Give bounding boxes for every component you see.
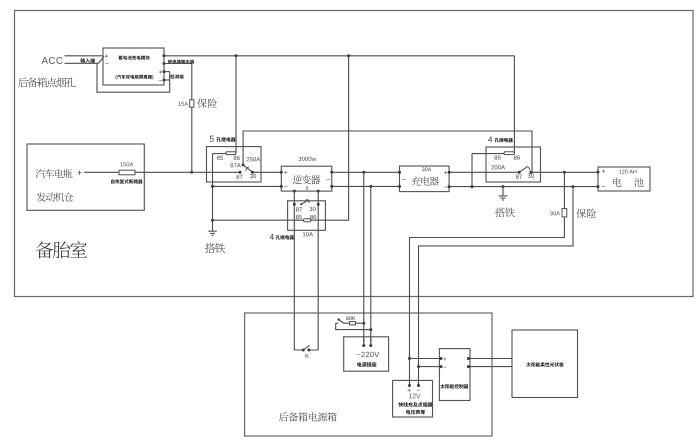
wire 80K to AC live <box>356 322 364 324</box>
junction bus1 fuse30 tap <box>563 171 566 174</box>
inverter term ac1 <box>330 171 333 174</box>
label 搭铁 2 <box>495 208 515 218</box>
relay K3 box 4孔继电器 <box>288 201 326 231</box>
label 保险 lower <box>576 209 596 218</box>
ground symbol 1 <box>208 231 217 235</box>
label 电源插座 <box>357 362 376 367</box>
junction bus2 down tap <box>572 185 575 188</box>
junction bus2 ground2 <box>502 185 505 188</box>
junction K1 pin30 <box>251 171 254 174</box>
label charger - left <box>402 178 405 180</box>
ground symbol 2 <box>499 196 508 200</box>
solar ctrl term -in <box>440 365 447 368</box>
inverter box 逆变器 <box>281 166 332 191</box>
label 12V <box>409 394 420 399</box>
fuse F1 15A body <box>190 100 194 107</box>
label 150A <box>120 162 133 166</box>
label K1 pin85 <box>217 156 223 160</box>
relay K1 box 5孔继电器 <box>207 147 262 182</box>
charger term in2 <box>398 185 401 188</box>
label 备胎室 <box>36 241 87 258</box>
wire bus1 inverter to charger <box>332 171 400 173</box>
solar ctrl term -out <box>467 365 470 368</box>
wire ACC lower <box>65 62 99 64</box>
label 后备箱电源箱 <box>279 412 337 421</box>
junction K1 gnd bus2 <box>211 185 214 188</box>
label charger 30A <box>422 167 431 171</box>
label 充电器 <box>411 176 439 185</box>
wire 87A to K2-30 <box>243 131 532 172</box>
label 太阳能柔性光伏板 <box>526 362 563 366</box>
junction bus1 AC tap <box>362 171 365 174</box>
wire bus1 fuse to relay87 <box>135 171 240 173</box>
ground wire 2 <box>502 187 504 196</box>
label 80K <box>346 316 355 320</box>
switch ACC input slash <box>99 56 105 63</box>
inverter term - in <box>280 185 288 188</box>
label 汽车电瓶 <box>36 169 73 178</box>
wire stub detect+ <box>164 71 170 73</box>
relay K2 coil <box>504 152 514 155</box>
label 发动机仓 <box>37 192 74 201</box>
junction 80K right <box>362 322 365 325</box>
label K3 pin85 <box>296 215 302 219</box>
label K3 pin86 <box>310 215 316 219</box>
relay K1 coil <box>226 152 236 155</box>
label K2 pin86 <box>514 155 520 159</box>
label 4孔继电器 upper <box>488 137 513 143</box>
charger term in1 <box>398 171 401 174</box>
relay K2 box 4孔继电器 <box>486 147 541 182</box>
module pin + input <box>105 55 108 58</box>
solar ctrl term +in <box>440 357 447 360</box>
switch 80K lever <box>339 320 344 324</box>
fuse F2 150A body <box>119 170 135 175</box>
relay K3 coil <box>303 219 310 222</box>
relay K3 switch lever <box>300 200 309 206</box>
label 检测端 <box>170 74 183 78</box>
aux battery box 电池 <box>598 167 650 191</box>
switch 80K contact dot <box>338 318 340 320</box>
junction top bus B <box>347 54 350 57</box>
wire module out2 to fuse <box>164 64 192 100</box>
wire socket lead1 <box>363 337 365 346</box>
label 电压表等 <box>406 410 425 415</box>
accessory box 12V <box>393 380 433 417</box>
wire 80K mid segment <box>344 322 350 324</box>
solar panel box 太阳能柔性光伏板 <box>512 330 578 398</box>
label 继电器输出端 <box>168 60 194 64</box>
wire bus1 relay30 to inverter+ <box>252 171 281 173</box>
junction K3 pin30 <box>317 203 320 206</box>
label K3 10A <box>303 232 313 236</box>
wire ACC upper <box>65 55 104 57</box>
label 输入端 <box>80 58 94 63</box>
battery term + <box>597 170 605 174</box>
label 搭铁 1 <box>205 243 225 253</box>
wire remote2 down <box>309 191 318 350</box>
wire bus1 charger to relay2-87 <box>449 171 519 173</box>
label 4孔继电器 lower <box>270 234 294 240</box>
label 15A <box>178 102 188 106</box>
label 5孔继电器 <box>210 136 236 142</box>
label K3 pin30 <box>309 207 315 211</box>
wire battery+ down <box>563 172 565 208</box>
junction K1 gnd coilbus <box>211 219 214 222</box>
car battery box 汽车电瓶/发动机仓 <box>27 144 144 210</box>
wire bus1 relay2-30 to battery <box>531 171 598 173</box>
label inverter K <box>306 186 309 189</box>
label 3000w <box>299 157 316 161</box>
wire module detect loop <box>97 63 170 92</box>
solar ctrl term +out <box>467 357 470 360</box>
junction 80K bottom <box>369 328 372 331</box>
wire K2 coil left <box>472 153 504 155</box>
wire top bus <box>164 55 514 57</box>
switch K left terminal <box>302 349 305 352</box>
switch K right terminal <box>307 349 310 352</box>
wire panel- link <box>470 366 512 368</box>
junction K3 pin87 <box>293 203 296 206</box>
wire solar- in <box>419 366 442 368</box>
junction fuse-bus1 <box>190 171 193 174</box>
junction bus2 relay2-85 <box>471 185 474 188</box>
label 后备箱点烟孔 <box>18 77 75 87</box>
spare-tire compartment outline 备胎室 <box>15 11 694 297</box>
wire K1 coil left <box>213 153 226 155</box>
wire 80K return <box>336 323 371 329</box>
label K1 250A <box>247 157 261 161</box>
relay K1 switch lever <box>243 165 252 172</box>
battery charge module box 蓄电池充电模块 <box>103 48 164 85</box>
battery term - <box>597 185 605 188</box>
charger term out+ <box>444 171 450 174</box>
switch K lever <box>304 345 310 349</box>
label switch K <box>306 354 309 358</box>
label K1 pin86 <box>234 156 240 160</box>
wire solar+ in <box>410 358 442 360</box>
wire K3 coil left <box>213 219 304 221</box>
wire trigger to 5-pin relay coil <box>235 56 237 153</box>
label (汽车双电瓶隔离器) <box>116 75 154 80</box>
label car battery + <box>77 171 81 175</box>
module terminal out2 <box>163 62 166 65</box>
label K1 pin87A <box>230 163 240 167</box>
label 逆变器 <box>293 175 321 184</box>
fuse F3 30A body <box>562 209 567 217</box>
wire fuse30 route <box>410 217 565 386</box>
solar controller box 太阳能控制器 <box>439 349 470 401</box>
inverter term + in <box>280 171 288 174</box>
label 30A <box>550 211 560 215</box>
wire battery- route <box>419 187 574 386</box>
wire remote1 down <box>294 191 303 350</box>
node ACC label <box>42 57 63 64</box>
junction K2 pin30 <box>529 171 532 174</box>
label 太阳能控制器 <box>440 384 468 388</box>
relay K2 switch lever <box>519 167 529 173</box>
wire trigger to 200A relay coil <box>513 56 515 153</box>
wire 80K top segment <box>336 322 339 324</box>
module terminal detect + <box>159 70 165 74</box>
wire stub detect- <box>164 79 170 81</box>
junction K1 87A <box>242 163 245 166</box>
wire bus2 left <box>213 185 282 187</box>
wire AC live down <box>363 172 365 345</box>
label K2 pin87 text <box>516 175 522 179</box>
label K2 pin30 text <box>528 174 534 178</box>
label K1 pin30 text <box>250 174 256 178</box>
inverter remote term 1 <box>293 190 296 193</box>
module terminal relay-out <box>163 54 166 57</box>
wire AC neutral down <box>370 186 372 345</box>
trunk power box outline 后备箱电源箱 <box>245 313 492 436</box>
label 蓄电池充电模块 <box>119 56 150 60</box>
wire battery+ to fuse <box>84 171 119 173</box>
label K2 pin85 <box>494 155 500 159</box>
wire bus2 mid <box>332 185 400 187</box>
junction 12v- solar tap <box>417 365 420 368</box>
junction top bus A <box>235 54 238 57</box>
wire panel+ link <box>470 358 512 360</box>
12V term + <box>408 384 411 392</box>
charger term out- <box>444 185 450 188</box>
socket box ~220V <box>344 337 389 371</box>
junction K2 pin87 <box>518 171 521 174</box>
label K3 pin87 <box>296 207 302 211</box>
wire K2 85 to bus2 <box>471 154 473 187</box>
resistor R1 80K body <box>350 322 356 325</box>
label 自恢复式断路器 <box>111 179 142 183</box>
label K1 pin87 text <box>236 175 242 179</box>
socket terminal 2 <box>369 344 372 347</box>
wire K1 85 to ground <box>212 154 214 232</box>
inverter term ac2 <box>327 179 333 188</box>
inverter remote term 2 <box>317 190 320 193</box>
module terminal detect - <box>159 79 165 82</box>
junction bus2 AC tap <box>369 185 372 188</box>
label 电池 <box>613 178 643 187</box>
label 快线充及点烟器 <box>398 402 432 407</box>
socket terminal 1 <box>362 344 365 347</box>
label ~220V <box>357 352 380 357</box>
junction K1 pin87 <box>239 171 242 174</box>
wire trigger to 10A relay coil <box>311 56 349 220</box>
charger box 充电器 <box>400 166 450 192</box>
label K2 200A <box>491 165 505 169</box>
module pin - input <box>105 62 108 64</box>
wire socket lead2 <box>370 337 372 346</box>
wire fuse to bus1 <box>191 107 193 172</box>
wire bus2 right <box>449 186 598 188</box>
label 保险 upper <box>197 99 217 108</box>
label 120AH <box>619 170 636 174</box>
junction 12v+ solar tap <box>408 357 411 360</box>
12V term - <box>417 384 420 390</box>
